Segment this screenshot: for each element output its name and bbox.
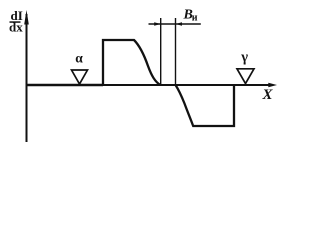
svg-text:α: α (75, 50, 83, 65)
waveform positive pulse (103, 40, 161, 85)
dimension line (149, 23, 201, 25)
dimension extension line right (175, 18, 177, 85)
dimension extension line left (160, 18, 162, 85)
dimension arrow right (points left) (176, 22, 183, 26)
marker gamma triangle (237, 69, 254, 84)
marker alpha triangle (72, 70, 88, 84)
waveform negative pulse (176, 85, 235, 126)
svg-text:и: и (192, 12, 198, 23)
dimension arrow left (points right) (154, 22, 161, 26)
svg-text:dx: dx (9, 20, 23, 35)
y-axis arrowhead (24, 10, 29, 25)
x-axis arrowhead (268, 83, 277, 87)
label B_и (183, 8, 198, 24)
label dI/dx (9, 8, 23, 35)
wire waveform zero segment left (27, 84, 104, 87)
svg-text:γ: γ (240, 49, 248, 65)
y-axis (26, 14, 28, 142)
x-axis (27, 84, 271, 86)
svg-text:X: X (262, 87, 274, 103)
